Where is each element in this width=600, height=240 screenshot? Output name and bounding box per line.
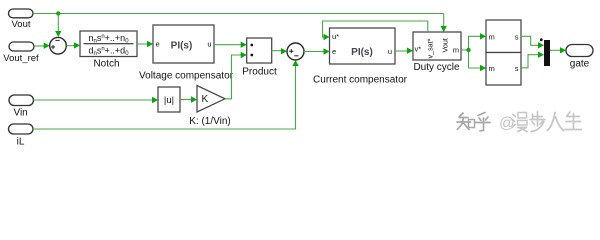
wire Voltage compensator u to Product in1 (214, 42, 247, 48)
svg-text:iL: iL (17, 137, 25, 148)
svg-text:Vout_ref: Vout_ref (3, 53, 39, 64)
gain K (1/Vin) (189, 86, 231, 128)
wire Sum2 to Current compensator e (304, 48, 330, 54)
wire Product to Sum2 (272, 48, 287, 54)
svg-text:u: u (207, 40, 211, 49)
sum Sum2 (287, 43, 304, 60)
svg-text:Current compensator: Current compensator (313, 75, 408, 86)
wire pwm1 s to Mux (521, 36, 544, 48)
svg-text:|u|: |u| (164, 95, 174, 106)
wire Sum1 to Notch (66, 42, 80, 48)
svg-text:Product: Product (242, 67, 277, 78)
inport Vin (9, 95, 34, 119)
wire Notch to Voltage compensator (137, 41, 153, 47)
junction on Vout wire (56, 11, 60, 15)
svg-text:e: e (156, 40, 160, 49)
wire Current compensator u to Duty cycle v* (395, 48, 413, 54)
svg-text:Vout: Vout (441, 38, 450, 52)
watermark 知乎 @漫步人生 (drawn strokes, no CJK font) (457, 112, 582, 133)
watermark char 知 (457, 113, 475, 130)
wire Abs to K gain (180, 96, 197, 102)
watermark char 生 (565, 112, 582, 130)
subsystem Duty cycle (413, 32, 461, 73)
outport gate (566, 45, 593, 70)
svg-text:m: m (489, 32, 495, 41)
svg-text:s: s (515, 64, 519, 73)
wire junction down to Sum1 (55, 14, 61, 38)
watermark char 乎 (476, 113, 491, 131)
wire Vin to Abs (34, 97, 159, 103)
wire Vout_ref to Sum1 (34, 43, 50, 49)
wire Duty cycle m to PWM inputs (461, 33, 486, 71)
inport Vout_ref (3, 42, 39, 64)
inport Vout (9, 9, 34, 30)
svg-text:Vin: Vin (13, 108, 27, 119)
watermark char 步 (530, 112, 545, 132)
wire K gain up to Product in2 (225, 52, 247, 99)
svg-text:Vout: Vout (11, 19, 30, 30)
svg-text:s: s (515, 32, 519, 41)
label dot above mux input (540, 38, 543, 41)
svg-text:Duty cycle: Duty cycle (413, 62, 460, 73)
svg-text:gate: gate (570, 59, 590, 70)
wire anti-windup v_sat* to u* (323, 21, 428, 40)
product block Product (242, 38, 277, 78)
svg-text:@: @ (499, 115, 515, 132)
pwm block 2 (m to s) (486, 53, 521, 86)
svg-text:K: K (202, 94, 209, 105)
svg-text:v*: v* (415, 45, 422, 54)
pwm block 1 (m to s) (486, 20, 521, 53)
watermark char 人 (548, 113, 564, 131)
abs block |u| (158, 87, 180, 112)
svg-text:m: m (453, 46, 459, 55)
watermark char 漫 (512, 113, 527, 132)
svg-text:PI(s): PI(s) (171, 41, 193, 52)
svg-text:e: e (332, 47, 336, 56)
svg-text:PI(s): PI(s) (351, 47, 373, 58)
svg-text:u*: u* (332, 32, 339, 41)
wire pwm2 s to Mux (521, 52, 544, 68)
subsystem U_VC Voltage compensator PI(s) (139, 25, 234, 82)
sum Sum1 (50, 37, 67, 54)
transfer-function block Notch (80, 31, 137, 70)
wire Vout to Duty-cycle Vout port (top bus) (33, 14, 447, 33)
inport iL (9, 124, 34, 148)
subsystem U_CC Current compensator PI(s) (313, 28, 408, 86)
svg-text:K: (1/Vin): K: (1/Vin) (189, 116, 231, 127)
wire Mux to gate (550, 47, 566, 53)
svg-text:u: u (388, 47, 392, 56)
svg-text:Voltage compensator: Voltage compensator (139, 71, 234, 82)
svg-text:m: m (489, 64, 495, 73)
svg-text:v_sat*: v_sat* (426, 38, 435, 58)
wire iL to Sum2 minus (33, 60, 299, 129)
mux Mux (544, 40, 550, 66)
svg-text:Notch: Notch (93, 59, 119, 70)
